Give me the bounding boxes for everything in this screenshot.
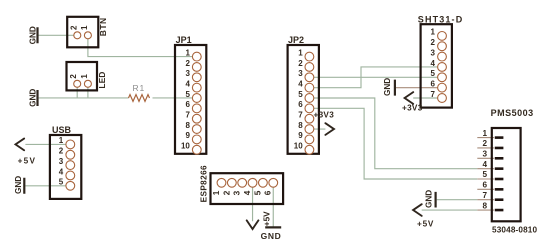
svg-text:LED: LED <box>97 72 107 89</box>
svg-text:GND: GND <box>261 231 282 241</box>
svg-text:+5V: +5V <box>417 219 434 228</box>
svg-text:1: 1 <box>80 25 89 30</box>
svg-text:1: 1 <box>431 28 436 37</box>
svg-text:2: 2 <box>298 59 303 68</box>
svg-text:6: 6 <box>298 100 303 109</box>
svg-text:+3V3: +3V3 <box>314 110 335 119</box>
svg-text:ESP8266: ESP8266 <box>200 165 209 202</box>
svg-text:9: 9 <box>298 131 303 140</box>
svg-text:+5V: +5V <box>263 211 272 226</box>
svg-text:6: 6 <box>264 190 273 195</box>
svg-text:1: 1 <box>482 129 487 138</box>
svg-text:GND: GND <box>29 89 38 107</box>
svg-text:5: 5 <box>185 90 190 99</box>
svg-text:USB: USB <box>52 125 72 135</box>
svg-text:6: 6 <box>185 100 190 109</box>
svg-text:1: 1 <box>298 48 303 57</box>
svg-text:53048-0810: 53048-0810 <box>492 225 538 234</box>
svg-text:8: 8 <box>298 121 303 130</box>
svg-text:3: 3 <box>431 48 436 57</box>
svg-text:PMS5003: PMS5003 <box>491 108 534 118</box>
svg-text:1: 1 <box>59 136 64 145</box>
svg-text:10: 10 <box>181 142 190 151</box>
svg-text:GND: GND <box>424 190 433 208</box>
svg-text:8: 8 <box>185 121 190 130</box>
svg-text:4: 4 <box>243 190 252 195</box>
svg-text:GND: GND <box>383 78 392 96</box>
svg-text:5: 5 <box>482 170 487 179</box>
svg-text:SHT31-D: SHT31-D <box>418 14 464 24</box>
svg-text:GND: GND <box>14 176 23 194</box>
svg-text:3: 3 <box>59 157 64 166</box>
svg-text:7: 7 <box>431 90 436 99</box>
svg-text:1: 1 <box>80 74 89 79</box>
svg-text:4: 4 <box>431 59 436 68</box>
svg-text:2: 2 <box>482 139 487 148</box>
svg-text:6: 6 <box>431 79 436 88</box>
svg-text:R1: R1 <box>133 83 145 93</box>
svg-text:3: 3 <box>482 150 487 159</box>
svg-text:5: 5 <box>59 178 64 187</box>
svg-text:JP2: JP2 <box>288 35 304 45</box>
svg-text:1: 1 <box>212 190 221 195</box>
svg-text:3: 3 <box>233 190 242 195</box>
svg-text:5: 5 <box>431 69 436 78</box>
svg-text:2: 2 <box>69 25 78 30</box>
svg-text:2: 2 <box>431 38 436 47</box>
svg-text:GND: GND <box>29 26 38 44</box>
svg-text:5: 5 <box>253 190 262 195</box>
svg-text:4: 4 <box>482 160 487 169</box>
svg-text:7: 7 <box>185 111 190 120</box>
svg-text:3: 3 <box>185 69 190 78</box>
svg-text:2: 2 <box>69 74 78 79</box>
svg-text:9: 9 <box>185 131 190 140</box>
svg-text:7: 7 <box>482 191 487 200</box>
svg-text:4: 4 <box>59 167 64 176</box>
svg-text:10: 10 <box>294 142 303 151</box>
svg-text:6: 6 <box>482 181 487 190</box>
svg-text:3: 3 <box>298 69 303 78</box>
svg-text:BTN: BTN <box>98 17 108 36</box>
svg-text:2: 2 <box>222 190 231 195</box>
svg-text:4: 4 <box>185 79 190 88</box>
svg-text:4: 4 <box>298 79 303 88</box>
svg-text:2: 2 <box>185 59 190 68</box>
svg-text:+5V: +5V <box>18 157 37 166</box>
svg-text:5: 5 <box>298 90 303 99</box>
svg-text:+3V3: +3V3 <box>402 104 423 113</box>
svg-text:7: 7 <box>298 111 303 120</box>
svg-text:1: 1 <box>185 48 190 57</box>
svg-text:JP1: JP1 <box>176 35 192 45</box>
svg-text:2: 2 <box>59 147 64 156</box>
svg-text:8: 8 <box>482 201 487 210</box>
